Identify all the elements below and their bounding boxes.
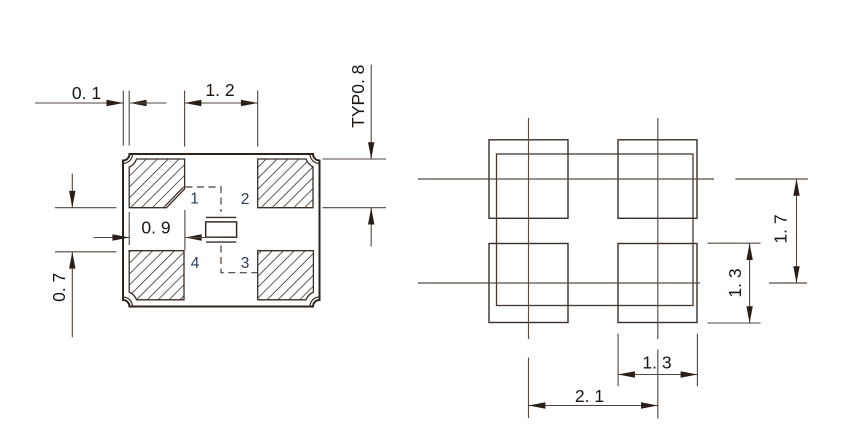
crystal symbol bottom plate: [206, 241, 236, 243]
svg-text:1. 2: 1. 2: [205, 80, 234, 100]
dimension 0.9 right arrow: [185, 234, 202, 240]
dimension 1.3 right down arrow: [746, 306, 752, 323]
dimension TYP0.8 upper line: [370, 65, 372, 159]
dimension 0.9 extension line left: [128, 212, 130, 245]
pad 2 (hatched): [258, 159, 313, 208]
svg-text:0. 1: 0. 1: [72, 83, 101, 103]
dimension 1.3 bottom left arrow: [618, 371, 635, 377]
pad 3 (hatched): [258, 251, 314, 300]
dimension 1.3 right extension line bottom: [707, 322, 760, 324]
dimension TYP0.8 down arrow: [368, 142, 374, 159]
dimension 0.7 upper line: [71, 174, 73, 208]
land pattern pad bottom-left: [489, 244, 568, 323]
centerline horizontal top row right segment: [735, 178, 807, 180]
svg-text:2: 2: [241, 191, 250, 208]
centerline vertical left column: [528, 118, 530, 339]
crystal symbol body: [206, 222, 237, 237]
svg-text:4: 4: [191, 255, 200, 272]
dimension 1.3 bottom extension line right: [696, 334, 698, 387]
dimension 1.7 down arrow: [793, 266, 799, 283]
pad 1 (hatched, chamfered pin-1 corner): [129, 159, 184, 208]
dimension 0.9 left tail: [94, 237, 130, 239]
dimension 0.1 extension line (pad edge): [128, 91, 130, 146]
dimension 1.2 extension line right: [257, 91, 259, 147]
dimension 0.1 extension line (package edge): [122, 91, 124, 146]
svg-text:TYP0. 8: TYP0. 8: [348, 65, 368, 128]
centerline horizontal top row: [418, 178, 714, 180]
internal dashed connection pad1 to crystal: [186, 187, 222, 212]
dimension 2.1 right arrow: [641, 402, 658, 408]
dimension 1.3 right line: [749, 243, 751, 323]
dimension 0.7 extension line top: [55, 207, 116, 209]
package outline: [123, 154, 320, 307]
dimension 0.7 up arrow: [69, 252, 75, 269]
centerline horizontal bottom row: [418, 282, 700, 284]
dimension 1.3 bottom extension line left: [617, 334, 619, 387]
dimension 2.1 left arrow: [529, 402, 546, 408]
dimension 1.7 line: [796, 179, 798, 283]
crystal symbol top plate: [206, 216, 236, 218]
svg-text:1. 3: 1. 3: [725, 268, 745, 297]
dimension 0.1 left arrow: [107, 100, 124, 106]
dimension 0.1 right tail: [130, 102, 166, 104]
dimension 1.2 extension line left: [184, 91, 186, 147]
svg-text:1. 3: 1. 3: [642, 353, 671, 373]
dimension 1.2 right arrow: [241, 100, 258, 106]
dimension 0.7 extension line bottom: [55, 251, 116, 253]
land pattern pad top-right: [618, 140, 697, 219]
dimension 1.7 up arrow: [793, 179, 799, 196]
dimension 0.7 lower line: [71, 252, 73, 337]
dimension 0.1 left tail: [35, 102, 123, 104]
dimension TYP0.8 lower line: [370, 208, 372, 247]
package outline overlay: [497, 154, 694, 306]
centerline vertical right column: [657, 118, 659, 339]
svg-text:2. 1: 2. 1: [575, 386, 604, 406]
land pattern pad top-left: [489, 140, 568, 219]
internal dashed connection crystal to pad3: [221, 246, 258, 273]
pad 4 (hatched): [129, 251, 184, 300]
castellation ring bottom-left: [123, 297, 133, 307]
svg-text:0. 7: 0. 7: [49, 273, 69, 302]
svg-text:3: 3: [241, 255, 250, 272]
dimension TYP0.8 up arrow: [368, 208, 374, 225]
dimension 1.2 line: [185, 102, 258, 104]
castellation ring bottom-right: [310, 297, 320, 307]
dimension 1.3 right up arrow: [746, 243, 752, 260]
centerline horizontal bottom row right segment: [769, 282, 807, 284]
dimension 1.3 bottom right arrow: [681, 371, 698, 377]
castellation ring top-right: [310, 154, 320, 164]
centerline vertical left column lower segment: [528, 358, 530, 419]
pad 1 chamfer inner line: [165, 188, 183, 206]
dimension 0.7 down arrow: [69, 191, 75, 208]
dimension 1.3 right extension line top: [707, 242, 760, 244]
dimension 2.1 line: [529, 405, 658, 407]
castellation ring top-left: [123, 154, 133, 164]
dimension 0.9 extension line right: [184, 210, 186, 250]
dimension 0.9 left arrow: [112, 234, 129, 240]
dimension TYP0.8 extension line bottom: [323, 207, 387, 209]
svg-text:1. 7: 1. 7: [771, 214, 791, 243]
dimension 0.1 right arrow: [130, 100, 147, 106]
dimension 1.2 left arrow: [185, 100, 202, 106]
svg-text:0. 9: 0. 9: [141, 217, 170, 237]
centerline vertical right column lower segment: [657, 350, 659, 419]
land pattern pad bottom-right: [618, 244, 697, 323]
dimension 0.9 right tail: [185, 237, 220, 239]
svg-text:1: 1: [190, 191, 199, 208]
dimension 1.3 bottom line: [618, 374, 697, 376]
dimension TYP0.8 extension line top: [323, 158, 387, 160]
